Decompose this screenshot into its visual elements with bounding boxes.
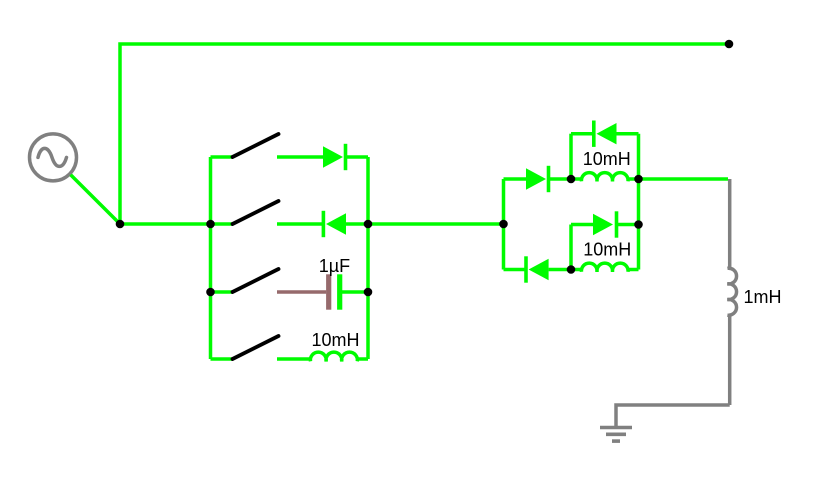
node E junction xyxy=(634,175,643,184)
wire V1 lead to node A xyxy=(71,175,120,224)
wire top horizontal xyxy=(120,44,729,224)
diode D6 parallel lower xyxy=(571,211,639,269)
switch SW2 xyxy=(211,201,279,224)
diode D4 parallel top xyxy=(571,121,639,180)
node B junction xyxy=(206,220,215,229)
diode D3 xyxy=(504,166,572,192)
svg-text:1µF: 1µF xyxy=(319,256,350,276)
node rail2-row3 junction xyxy=(364,288,373,297)
inductor L4 1mH xyxy=(727,268,736,405)
diode D5 xyxy=(504,256,572,282)
node D junction xyxy=(567,175,576,184)
wire right rail vertical xyxy=(366,157,370,359)
wire main bus xyxy=(120,222,211,226)
svg-text:1mH: 1mH xyxy=(743,287,781,307)
node C junction xyxy=(499,220,508,229)
wire left rail vertical xyxy=(209,157,213,359)
wire to output xyxy=(639,177,729,181)
wire gray bottom horizontal xyxy=(616,405,730,426)
diode D2 xyxy=(277,211,368,237)
inductor L1 10mH xyxy=(277,352,368,361)
wire gray output vertical xyxy=(728,179,732,268)
voltage source V1 (AC) xyxy=(30,134,77,181)
node F junction xyxy=(567,265,576,274)
wire bus row2 to right network xyxy=(368,222,504,226)
switch SW4 xyxy=(211,336,279,359)
ground xyxy=(600,428,632,442)
node G junction xyxy=(634,220,643,229)
wire right network right vertical xyxy=(637,134,641,270)
inductor L3 10mH xyxy=(571,263,639,272)
diode D1 xyxy=(277,144,368,170)
switch SW1 xyxy=(211,134,279,157)
wire right network left vertical xyxy=(502,179,506,270)
capacitor C1 xyxy=(277,274,368,309)
svg-text:10mH: 10mH xyxy=(311,330,359,350)
node rail2-row2 junction xyxy=(364,220,373,229)
node A junction xyxy=(116,220,125,229)
switch SW3 xyxy=(211,269,279,292)
node top-right endpoint xyxy=(725,40,734,49)
svg-text:10mH: 10mH xyxy=(583,240,631,260)
svg-text:10mH: 10mH xyxy=(583,149,631,169)
inductor L2 10mH xyxy=(571,173,639,182)
node B2 junction xyxy=(206,288,215,297)
